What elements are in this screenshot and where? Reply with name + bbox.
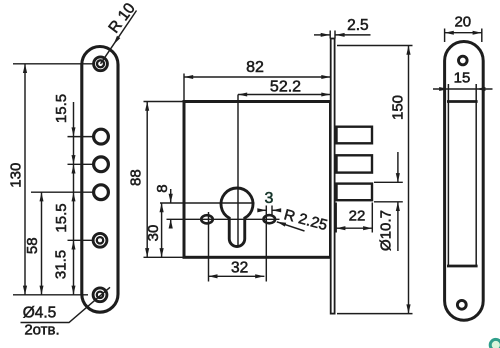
svg-text:30: 30 — [145, 225, 162, 242]
svg-text:8: 8 — [154, 184, 171, 192]
svg-text:150: 150 — [390, 95, 407, 120]
svg-text:82: 82 — [246, 59, 264, 76]
svg-text:22: 22 — [349, 207, 366, 224]
svg-text:130: 130 — [7, 163, 24, 188]
svg-text:31.5: 31.5 — [52, 250, 69, 279]
svg-text:Ø4.5: Ø4.5 — [23, 305, 57, 322]
svg-text:15: 15 — [454, 69, 471, 86]
svg-text:20: 20 — [454, 13, 471, 30]
svg-text:Ø10.7: Ø10.7 — [378, 210, 395, 251]
svg-text:2отв.: 2отв. — [24, 321, 59, 338]
svg-text:3: 3 — [265, 190, 274, 207]
svg-text:58: 58 — [24, 237, 41, 254]
svg-text:32: 32 — [231, 259, 248, 276]
svg-text:15.5: 15.5 — [53, 94, 70, 123]
svg-text:15.5: 15.5 — [53, 203, 70, 232]
svg-text:52.2: 52.2 — [270, 79, 301, 96]
svg-text:88: 88 — [127, 169, 144, 186]
svg-text:2.5: 2.5 — [347, 17, 369, 34]
